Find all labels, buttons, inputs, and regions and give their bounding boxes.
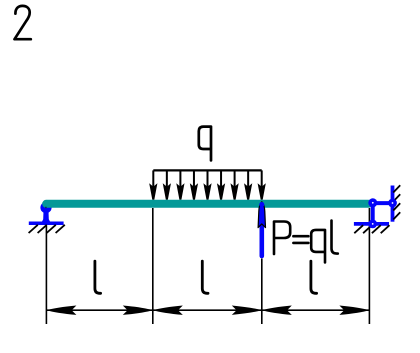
right support ground pin [368,220,377,229]
left support stem and flare [41,211,51,223]
span label l (right) [311,261,317,293]
dimension arrowhead span3 left [262,306,292,315]
left support base line [29,221,64,225]
right support wall hatching [393,185,400,219]
beam [42,200,372,208]
left support pin centre dot [45,207,47,209]
right support vertical link [371,203,375,224]
span label l (middle) [202,261,208,293]
label P=ql [274,221,338,263]
label q (distributed load value) [199,127,211,161]
extension line at x=261.8 [261,259,263,325]
extension line at x=152.8 [152,208,154,324]
force P arrow tip dot [259,202,264,207]
force P arrowhead [258,202,265,228]
dimension arrowhead span2 right [232,306,262,315]
span label l (left) [95,261,101,293]
problem number 2 [15,6,31,39]
right support beam pin [368,198,377,207]
right support ground hatching [354,225,389,233]
force P arrow shaft [259,224,264,256]
right support horizontal link [373,201,393,205]
dimension arrowhead span2 left [153,306,183,315]
right support wall line [391,186,395,222]
dimension arrowhead span3 right [339,306,369,315]
extension line at x=46.4 [45,226,47,324]
left support pin [40,202,51,213]
right support ground line [354,222,389,226]
left support hatching [29,225,65,233]
distributed load arrows (9 shafts with solid heads) [151,170,265,199]
dimension arrowhead span1 right [123,306,153,315]
dimension arrowhead span1 left [46,306,76,315]
dimension line [46,309,369,311]
distributed load q top line [153,169,261,171]
extension line at x=369.4 [368,208,370,324]
right support wall pin [388,199,397,208]
